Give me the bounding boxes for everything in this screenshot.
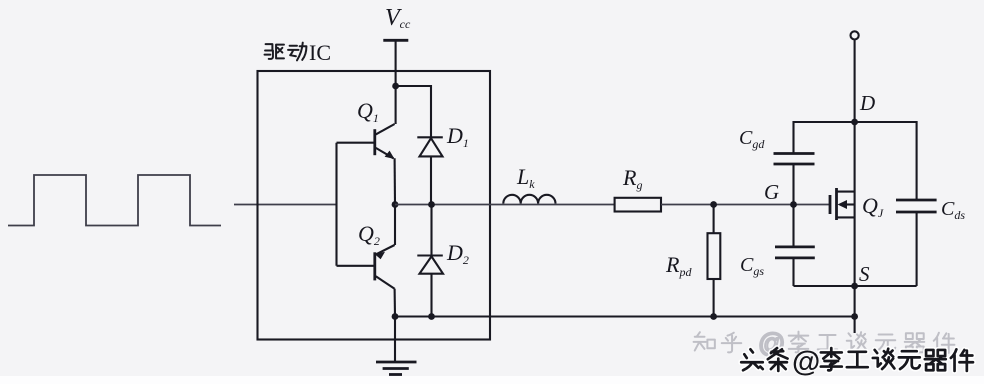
driver IC box <box>258 71 491 340</box>
node: D2 bottom <box>428 313 435 320</box>
watermark toutiao (dark) white halo <box>741 348 973 371</box>
watermark zhihu (gray) <box>694 328 955 358</box>
node: source <box>851 283 858 290</box>
node: totem output <box>392 201 399 208</box>
transistor Q1 (NPN) <box>337 124 395 158</box>
svg-text:S: S <box>859 262 870 286</box>
wire G node down to Cgs <box>792 205 794 247</box>
svg-text:IC: IC <box>309 40 331 65</box>
diode D1 <box>417 137 443 204</box>
node: G net <box>790 201 797 208</box>
capacitor Cgd <box>774 154 815 205</box>
transistor Q2 (PNP) <box>337 245 395 289</box>
wire input to driver IC <box>234 204 337 206</box>
capacitor Cgs <box>775 247 815 286</box>
MOSFET QJ <box>830 122 855 286</box>
wire Rg to gate <box>661 204 830 206</box>
node: Rpd tap <box>710 201 717 208</box>
node: drain <box>851 119 858 126</box>
bottom white strip <box>0 376 984 384</box>
resistor Rpd <box>708 205 721 318</box>
wire D node left to Cgd branch <box>794 122 855 154</box>
output wire to box edge <box>395 204 615 206</box>
label 驱动IC <box>265 40 331 65</box>
Vcc stem <box>395 40 397 86</box>
svg-text:G: G <box>764 180 779 204</box>
square wave input signal <box>8 175 221 226</box>
source rail of mosfet cell <box>794 285 917 287</box>
svg-text:@: @ <box>792 346 820 378</box>
capacitor Cds <box>896 200 937 286</box>
wire D node right to Cds branch <box>855 122 917 200</box>
watermark toutiao (dark) <box>741 346 973 378</box>
node: D1/D2 mid <box>428 201 435 208</box>
svg-text:D: D <box>859 91 875 115</box>
wire Vcc node to D1 top <box>396 86 431 137</box>
diode D2 <box>417 205 443 317</box>
node: Rpd bottom <box>710 313 717 320</box>
base vertical wire <box>335 143 337 266</box>
wire source to bottom rail <box>854 286 856 333</box>
ground <box>376 317 417 375</box>
node: bottom rail right <box>851 313 858 320</box>
wire Q1 emitter to mid node <box>394 158 396 204</box>
node: Vcc junction <box>392 83 399 90</box>
Vcc bar <box>383 39 408 42</box>
resistor Rg <box>615 198 661 212</box>
node: ground node <box>392 313 399 320</box>
wire mid node to Q2 emitter <box>394 205 396 246</box>
wire Q2 collector down to bottom rail <box>394 289 396 317</box>
bottom rail inside IC <box>395 315 855 317</box>
drain terminal circle <box>851 31 859 39</box>
inductor Lk <box>503 195 555 204</box>
wire Vcc node down to Q1 collector <box>395 86 397 124</box>
wire terminal to D node <box>854 40 856 123</box>
